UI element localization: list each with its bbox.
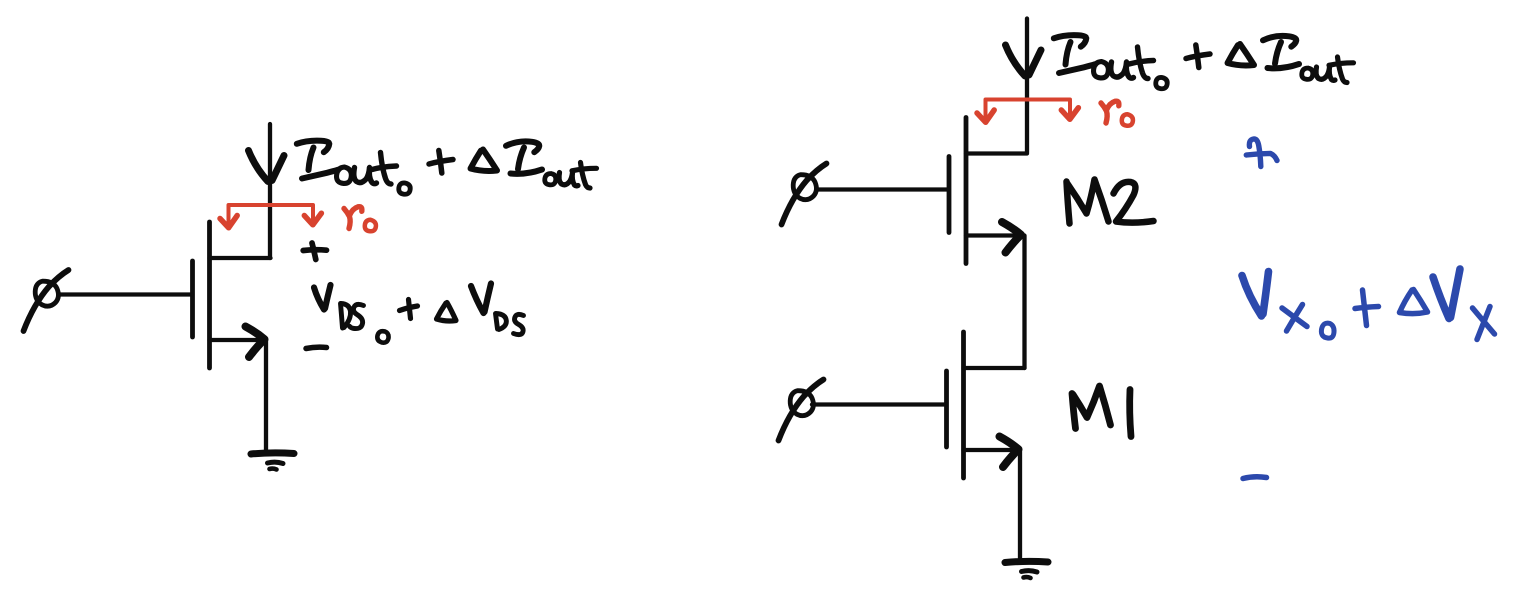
transistor M2 (NMOS) bbox=[949, 118, 1027, 264]
node: gate drive phi (M2) bbox=[782, 164, 827, 225]
wire: gate of M1 bbox=[812, 402, 945, 406]
ground (right circuit) bbox=[1005, 561, 1048, 578]
resistor ro: red arrow bracket across drain bbox=[220, 205, 321, 228]
label: ro (red) bbox=[1101, 101, 1133, 126]
current arrow into drain bbox=[1006, 45, 1042, 76]
label: Iout0 + delta Iout bbox=[1054, 35, 1354, 89]
label: VDS0 + delta VDS bbox=[314, 284, 524, 343]
ground (left circuit) bbox=[251, 453, 294, 470]
transistor M1 (NMOS) bbox=[947, 332, 1025, 478]
label: ro (red) bbox=[344, 207, 376, 232]
transistor M_left (NMOS) bbox=[193, 222, 271, 368]
minus sign of VX polarity (blue) bbox=[1243, 477, 1267, 479]
plus sign of VDS polarity bbox=[303, 243, 326, 260]
wire: source of M1 to ground bbox=[1018, 450, 1022, 561]
label: Iout0 + delta Iout bbox=[297, 141, 597, 195]
resistor ro: red arrow bracket across drain bbox=[977, 100, 1078, 123]
wire: drain output node bbox=[1025, 19, 1029, 153]
wire: node X, M2 source to M1 drain bbox=[1022, 236, 1026, 369]
node: gate drive phi (left) bbox=[24, 270, 69, 331]
label: VX0 + delta VX (blue) bbox=[1242, 269, 1495, 340]
plus sign of VX polarity (blue) bbox=[1246, 139, 1277, 167]
wire: drain output node bbox=[268, 124, 272, 258]
node: gate drive phi (M1) bbox=[779, 380, 824, 441]
wire: gate of M_left bbox=[59, 292, 191, 296]
minus sign of VDS polarity bbox=[306, 347, 327, 348]
wire: gate of M2 bbox=[817, 187, 948, 191]
wire: source of M_left to ground bbox=[264, 340, 268, 453]
label: M1 bbox=[1072, 386, 1131, 437]
current arrow into drain bbox=[249, 151, 285, 182]
label: M2 bbox=[1067, 180, 1154, 224]
